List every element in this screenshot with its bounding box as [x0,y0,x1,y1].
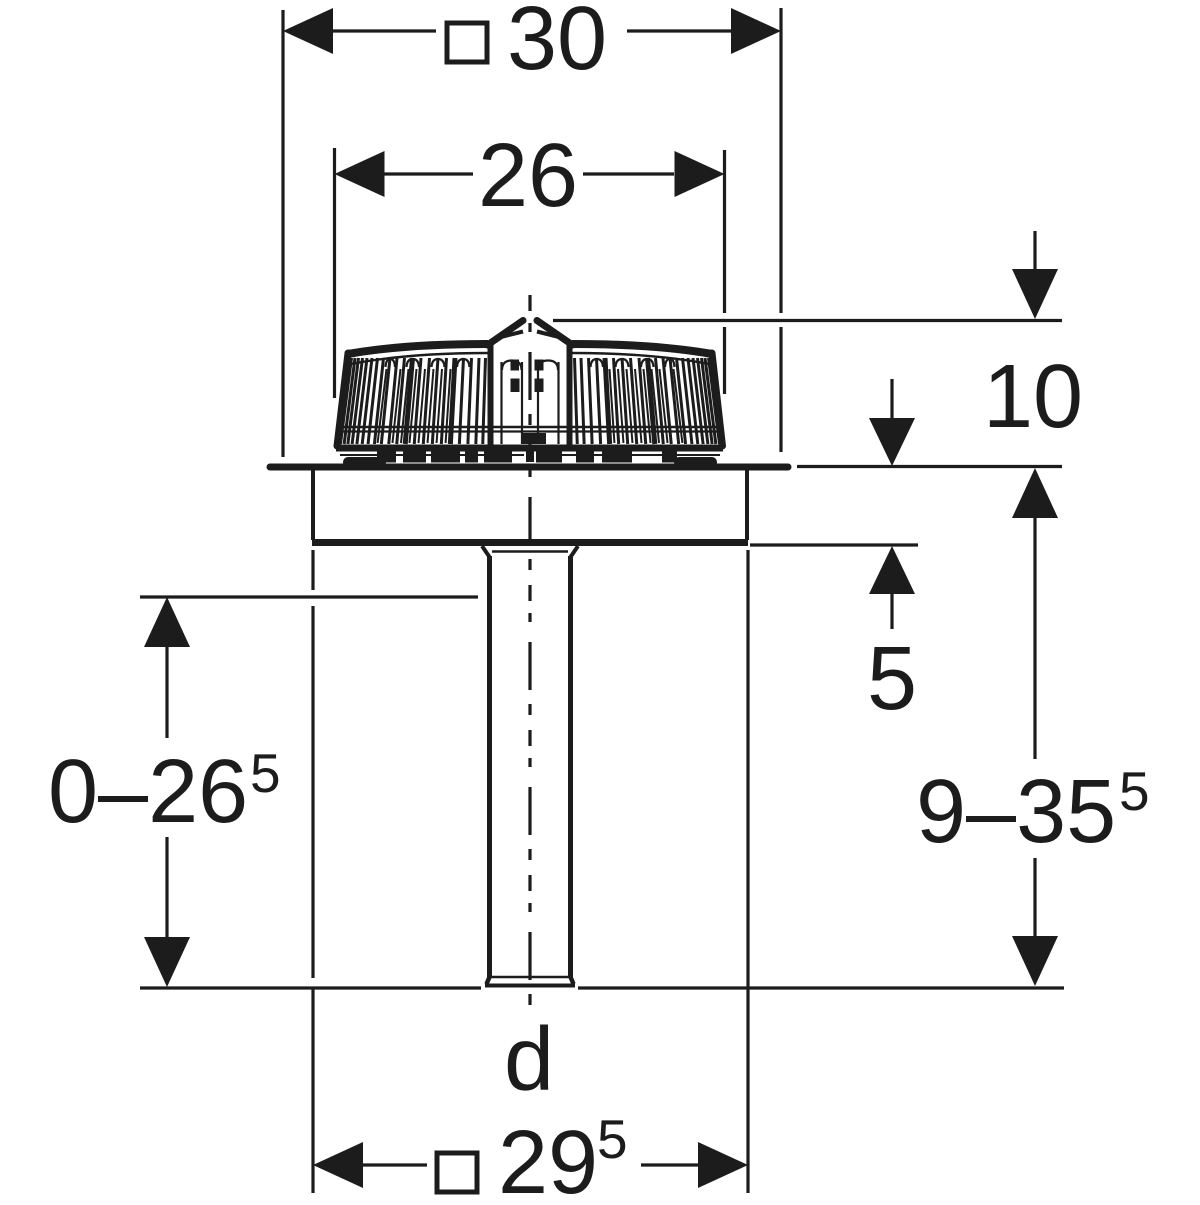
svg-text:26: 26 [478,126,578,226]
pipe: socket chamfer left [482,546,490,557]
dome: central peak tent right slope [537,321,573,346]
dimension 0-26.5: upper arrow [144,597,190,738]
dome: base ring band (thick) [336,445,723,452]
dimension 0-26.5: lower arrow [144,837,190,987]
dome: feet connecting line [340,454,720,456]
dimension 29.5: dimension line with arrows [313,1142,748,1188]
dome: arched slat tops left [386,359,396,367]
dome: right edge [712,353,723,446]
dimension 26: dimension line with arrows [335,151,725,197]
reference line: pipe end level [140,986,1064,989]
dome: feet blocks [377,452,677,463]
dome: central band inner slats [502,361,559,445]
dome: central band left vertical [488,343,494,445]
pipe: left wall [487,556,492,977]
dimension 29.5: right extension line [746,550,749,1193]
dimension 30: left extension line [281,10,284,457]
dimension 10: upper arrow [1012,231,1058,319]
dimension 0-26.5: value text [48,742,281,842]
svg-text:30: 30 [507,0,607,89]
reference line: dome top level (for dim 10) [553,319,1062,322]
svg-text:5: 5 [250,742,281,804]
dome: peak inner chevron left [499,332,523,338]
reference line: flange bottom level extension (right, for dim 5) [750,543,918,546]
pipe: end bead top line [487,976,573,979]
reference line: pipe insertion level (left, for dim 0-26.5) [140,595,478,598]
dome: arched slat tops right [665,359,675,367]
flange: right foot pad [674,457,717,468]
flange: top plate (edge view, thick) [270,464,788,471]
dimension 30: right extension line [779,8,782,452]
dimension 26: right extension line [723,150,726,394]
dome: left edge [337,353,348,446]
dome: centre foot tick [526,449,534,462]
dome: central peak tent left slope [488,321,524,346]
pipe: right wall [568,556,573,977]
dimension 5: upper arrow [869,379,915,466]
pipe: socket chamfer right [571,546,579,557]
dome: central latch clips [511,360,547,445]
flange: body left side [311,470,315,540]
pipe: socket shoulder line [492,550,568,552]
dome: peak inner chevron right [537,332,561,338]
centerline (dash-dot) [528,295,531,1013]
dimension 10 / 9-35.5: shared up arrow at flange level [1012,468,1058,759]
dimension 26: left extension line [333,148,336,398]
svg-text:5: 5 [1119,760,1150,822]
svg-text:9–35: 9–35 [916,762,1116,862]
svg-text:0–26: 0–26 [48,742,248,842]
flange: body bottom (thick) [312,539,748,546]
flange: left foot pad [343,457,386,468]
dimension 5: lower arrow [869,546,915,629]
svg-text:29: 29 [498,1113,598,1200]
drain dome leaf guard assembly [336,321,723,463]
dome: vertical slats left [340,358,351,444]
pipe: end bead sides [487,977,574,984]
dimension 30: square symbol [447,23,487,62]
svg-text:10: 10 [983,347,1083,447]
svg-text:5: 5 [867,629,917,729]
dimension 29.5: left extension line [311,550,314,1193]
dimension 9-35.5: lower arrow [1012,858,1058,986]
dome: rim lower thin line [351,353,488,364]
pipe: bottom edge [485,984,575,988]
svg-text:d: d [504,1010,554,1110]
dimension 29.5: square symbol [437,1153,477,1192]
reference line: flange top level extension (right) [797,465,1062,468]
dome: slat field horizontal inner rings [342,426,718,428]
dome: outer rim band (arched, thick) [348,344,488,354]
dimension 30: dimension line with arrows [283,8,781,54]
dome: central band right vertical [567,343,573,445]
dimension 29.5: value text [498,1108,628,1205]
dimension 9-35.5: value text [916,760,1150,862]
svg-text:5: 5 [597,1108,628,1170]
dome: vertical slats right [709,358,720,444]
flange: body right side [745,470,749,540]
